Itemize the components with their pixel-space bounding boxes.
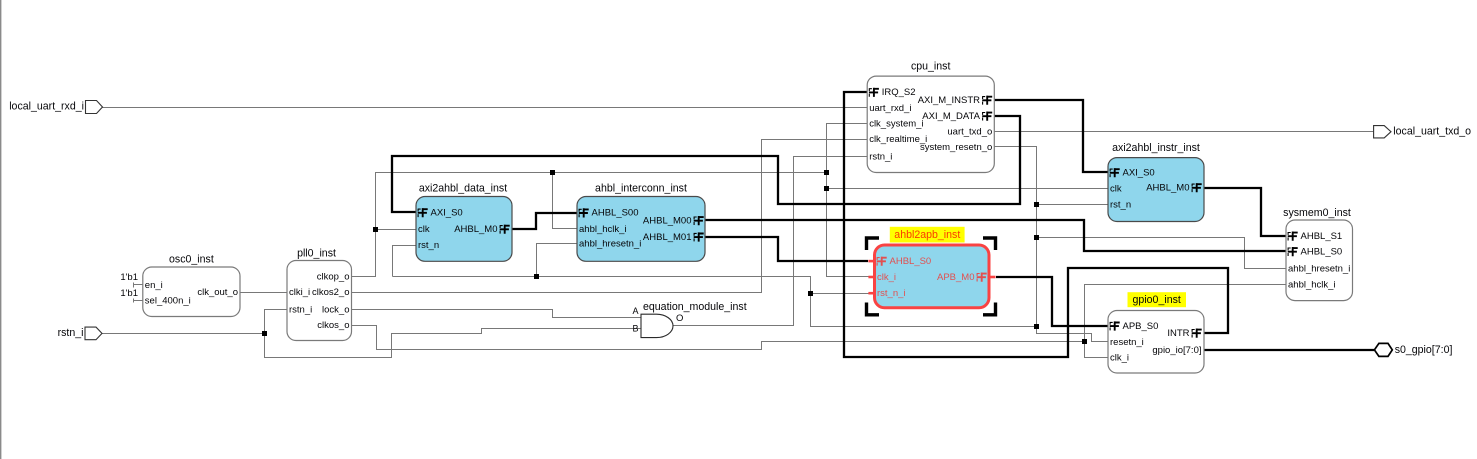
junction J10 [1034,324,1039,329]
bus pin AHBL_M00 [643,215,704,226]
svg-text:en_i: en_i [145,280,163,291]
module pll0_inst [287,248,352,341]
selection bracket top-left [867,238,880,250]
wire constant stub en_i [134,283,143,288]
svg-text:resetn_i: resetn_i [1110,337,1144,348]
wire net lock_o to gate A input [352,310,641,318]
wire clock branch to axi2ahbl_data clk [376,229,417,231]
svg-text:AHBL_M01: AHBL_M01 [643,232,692,243]
svg-text:axi2ahbl_data_inst: axi2ahbl_data_inst [419,183,507,195]
junction J9 [1034,235,1039,240]
bus pin AHBL_S0 [1288,246,1343,257]
svg-text:IRQ_S2: IRQ_S2 [882,87,916,98]
wire net local_uart_rxd_i to cpu uart_rxd_i [103,107,868,109]
svg-text:1'b1: 1'b1 [120,272,138,283]
svg-text:INTR: INTR [1167,328,1189,339]
red stub rst_n_i [868,292,875,295]
svg-text:clkop_o: clkop_o [317,272,350,283]
svg-text:uart_txd_o: uart_txd_o [947,126,992,137]
svg-text:ahbl_hresetn_i: ahbl_hresetn_i [579,239,641,250]
bus pin AXI_S0 [1110,168,1155,179]
svg-text:AHBL_S1: AHBL_S1 [1301,231,1343,242]
wire bus AXI_M_INSTR to axi2ahbl_instr AXI_S0 [994,100,1108,172]
wire net clkop_o clock trunk [352,173,827,277]
input port local_uart_rxd_i [9,101,102,114]
svg-text:clk_realtime_i: clk_realtime_i [869,134,927,145]
wire net uart_txd_o to local_uart_txd_o port [995,131,1374,133]
svg-text:local_uart_txd_o: local_uart_txd_o [1393,126,1471,138]
wire bus gpio INTR to cpu IRQ_S2 [844,92,1228,357]
gate equation_module_inst [641,301,747,338]
wire clkos branch to sysmem0 ahbl_hclk_i [1085,285,1287,342]
svg-text:AHBL_S0: AHBL_S0 [890,256,932,267]
svg-text:AHBL_S0: AHBL_S0 [1301,246,1343,257]
left window border line [0,0,1,459]
svg-text:1'b1: 1'b1 [120,288,138,299]
red stub clk_i [868,276,875,279]
module gpio0_inst highlighted title [1128,292,1187,307]
wire bus AHBL_M0 to AHBL_S00 [512,213,577,229]
selection bracket top-right [983,238,996,250]
wire net clkos2_o to cpu clk_realtime_i [352,140,868,293]
bus pin AHBL_S0 [877,256,932,267]
svg-text:AHBL_S00: AHBL_S00 [592,208,639,219]
svg-text:osc0_inst: osc0_inst [169,254,214,266]
wire reset west run [393,277,1037,327]
wire bus AHBL_M01 to ahbl2apb AHBL_S0 [705,237,868,261]
bus pin AHBL_S00 [579,208,639,219]
module sysmem0_inst [1283,207,1352,301]
svg-text:clk: clk [418,224,430,235]
wire reset staircase to gpio0 resetn_i [1037,327,1109,342]
svg-text:clki_i: clki_i [289,287,310,298]
svg-text:AXI_M_INSTR: AXI_M_INSTR [918,95,980,106]
junction J4 [824,170,829,175]
wire net rstn_i from input port [102,333,265,335]
svg-text:AXI_S0: AXI_S0 [1123,168,1155,179]
wire reset stub to ahbl2apb rst_n_i [811,293,869,295]
bus pin AXI_M_INSTR [918,95,992,106]
svg-text:ahbl_hclk_i: ahbl_hclk_i [579,224,627,235]
svg-text:AXI_S0: AXI_S0 [431,208,463,219]
svg-text:equation_module_inst: equation_module_inst [643,301,747,313]
wire bus axi2ahbl_instr AHBL_M0 to sysmem0 AHBL_S1 [1204,188,1286,236]
svg-text:clkos_o: clkos_o [317,320,349,331]
svg-text:gpio0_inst: gpio0_inst [1133,294,1181,306]
wire clock branch cpu clk_system_i and ahbl2apb clk_i [827,124,869,277]
wire net system_resetn_o trunk [995,147,1037,327]
module gpio0_inst [1108,311,1204,374]
svg-text:s0_gpio[7:0]: s0_gpio[7:0] [1395,344,1453,356]
module ahbl_interconn_inst [577,183,705,262]
module cpu_inst [867,61,994,173]
svg-text:ahbl2apb_inst: ahbl2apb_inst [894,229,960,241]
wire clock branch to axi2ahbl_instr clk [827,188,1109,190]
svg-text:APB_M0: APB_M0 [937,272,975,283]
svg-text:system_resetn_o: system_resetn_o [920,142,992,153]
svg-text:rst_n: rst_n [418,240,439,251]
svg-text:ahbl_interconn_inst: ahbl_interconn_inst [595,183,687,195]
wire reset branch to sysmem0 ahbl_hresetn_i [1037,238,1287,269]
svg-text:AHBL_M0: AHBL_M0 [454,224,497,235]
svg-text:axi2ahbl_instr_inst: axi2ahbl_instr_inst [1112,142,1200,154]
bus pin AHBL_S1 [1288,231,1343,242]
junction J7 [808,291,813,296]
junction J1 [262,331,267,336]
wire constant stub sel_400n_i [134,299,143,303]
junction J8 [1034,202,1039,207]
wire net gate O output to cpu rstn_i [673,157,868,326]
wire reset branch to axi2ahbl_instr rst_n [1037,204,1109,206]
bus pin INTR [1167,328,1201,339]
svg-text:ahbl_hresetn_i: ahbl_hresetn_i [1288,264,1350,275]
bus pin AHBL_M0 [1146,183,1202,194]
wire clock branch to ahbl_interconn ahbl_hclk_i [553,173,577,229]
junction J11 [1082,339,1087,344]
svg-text:gpio_io[7:0]: gpio_io[7:0] [1152,345,1201,356]
svg-text:O: O [676,313,683,324]
wire net osc clk_out_o to pll0 clki_i [241,292,287,294]
svg-text:sel_400n_i: sel_400n_i [145,296,191,307]
selection bracket bottom-left [867,303,880,315]
svg-text:rst_n_i: rst_n_i [877,288,906,299]
wire bus gpio_io to s0_gpio port [1204,349,1374,351]
wire reset branch to axi2ahbl_data rst_n [393,246,417,277]
svg-text:clkos2_o: clkos2_o [312,287,350,298]
wire clkos branch to gpio0 clk_i [1085,342,1109,358]
input port rstn_i [58,327,102,340]
bus pin APB_M0 [937,272,987,283]
red stub AHBL_S0 [868,260,875,263]
selection bracket bottom-right [983,303,996,315]
svg-text:AHBL_M0: AHBL_M0 [1146,183,1189,194]
wire bus AXI_M_DATA to axi2ahbl_data AXI_S0 [392,116,1020,212]
svg-text:clk_i: clk_i [877,272,896,283]
module ahbl2apb_inst highlighted title [890,227,965,243]
svg-text:ahbl_hclk_i: ahbl_hclk_i [1288,280,1336,291]
wire net rstn_i branch up to pll0 rstn_i [265,310,287,334]
svg-text:cpu_inst: cpu_inst [911,61,951,73]
junction J2 [373,227,378,232]
wire reset branch to ahbl_interconn ahbl_hresetn_i [537,244,577,277]
svg-text:AXI_M_DATA: AXI_M_DATA [922,111,980,122]
bus pin AHBL_M01 [643,232,704,243]
bus pin AXI_M_DATA [922,111,992,122]
svg-text:rst_n: rst_n [1110,200,1131,211]
svg-text:B: B [632,324,638,334]
svg-text:sysmem0_inst: sysmem0_inst [1283,207,1351,219]
svg-text:local_uart_rxd_i: local_uart_rxd_i [9,101,84,113]
svg-text:AHBL_M00: AHBL_M00 [643,215,692,226]
svg-text:uart_rxd_i: uart_rxd_i [869,103,911,114]
junction J3 [550,170,555,175]
svg-text:rstn_i: rstn_i [289,304,312,315]
bus pin AXI_S0 [418,208,463,219]
inout port s0_gpio[7:0] [1374,343,1452,356]
svg-text:clk_out_o: clk_out_o [197,287,238,298]
svg-text:lock_o: lock_o [322,304,349,315]
bus pin IRQ_S2 [869,87,916,98]
junction J5 [824,186,829,191]
module axi2ahbl_data_inst [416,183,512,262]
wire net rstn_i detour under pll0 to gate B input [265,329,641,358]
module osc0_inst [143,254,240,317]
output port local_uart_txd_o [1374,126,1472,138]
bus pin APB_S0 [1110,321,1159,332]
svg-text:clk_system_i: clk_system_i [869,119,923,130]
svg-text:clk_i: clk_i [1110,353,1129,364]
bus pin AHBL_M0 [454,224,510,235]
module ahbl2apb_inst (selected) [875,245,990,308]
svg-text:clk: clk [1110,184,1122,195]
svg-text:APB_S0: APB_S0 [1123,321,1159,332]
svg-text:rstn_i: rstn_i [869,152,892,163]
wire net clkos_o trunk [352,326,1085,350]
junction J6 [534,274,539,279]
red stub APB_M0 [989,276,996,279]
svg-text:pll0_inst: pll0_inst [297,248,336,260]
module axi2ahbl_instr_inst [1108,142,1204,222]
wire bus AHBL_M00 to sysmem0 AHBL_S0 [705,220,1286,251]
svg-text:rstn_i: rstn_i [58,327,84,339]
svg-text:A: A [632,306,638,316]
wire bus APB_M0 to gpio0 APB_S0 [996,277,1108,326]
